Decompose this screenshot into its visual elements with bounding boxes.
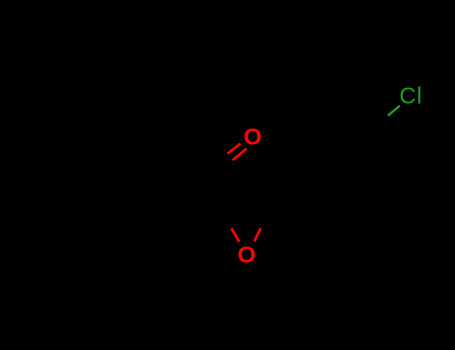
right chlorophenyl ring (black bonds, invisible on black) bbox=[302, 110, 384, 196]
epoxide C2-O bond black half bbox=[224, 215, 232, 229]
left phenyl ring (black bonds, invisible on black) bbox=[69, 108, 176, 214]
C=O double bond, red half second line bbox=[228, 144, 241, 154]
svg-text:O: O bbox=[243, 124, 261, 150]
C=O double bond, black half second line bbox=[215, 154, 228, 166]
C=O double bond, red half main line bbox=[233, 149, 247, 161]
svg-text:Cl: Cl bbox=[399, 83, 421, 109]
epoxide C3-O bond black half bbox=[261, 215, 267, 228]
bond: left phenyl ipso to carbonyl C1 bbox=[176, 161, 219, 172]
svg-text:O: O bbox=[237, 241, 255, 267]
bond: epoxide C3 to chlorophenyl ipso R1 (black) bbox=[267, 181, 310, 215]
epoxide ring C2-C3 bond (black) bbox=[224, 214, 267, 217]
C-Cl bond black half (ring side) bbox=[376, 116, 388, 126]
C-Cl bond green half bbox=[388, 106, 400, 116]
bond: carbonyl C1 to epoxide C2 bbox=[219, 172, 224, 215]
epoxide C3-O bond red half bbox=[254, 228, 260, 241]
epoxide C2-O bond red half bbox=[231, 228, 239, 242]
C=O double bond, black half (C1 side) main line bbox=[219, 160, 233, 172]
